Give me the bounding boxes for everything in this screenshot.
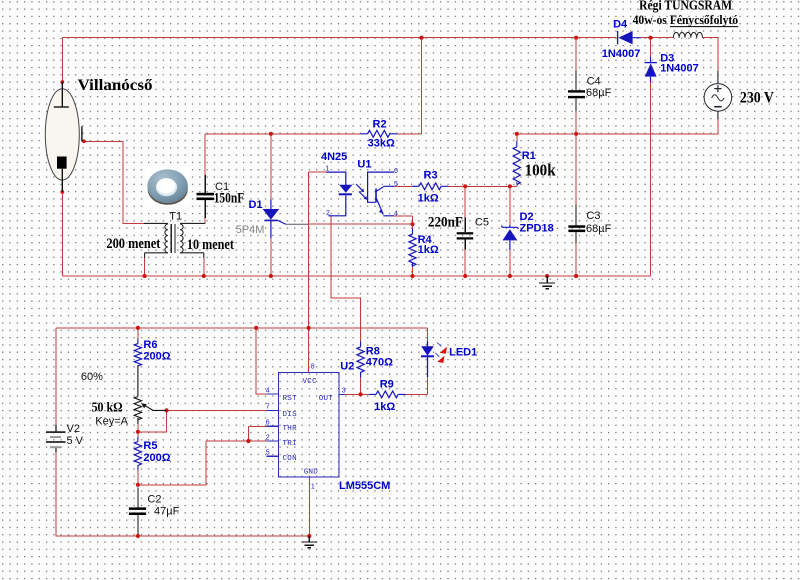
svg-text:1: 1 — [311, 483, 315, 490]
svg-text:CON: CON — [283, 455, 297, 463]
svg-text:4N25: 4N25 — [321, 151, 347, 163]
svg-text:R2: R2 — [373, 119, 387, 131]
svg-text:Villanócső: Villanócső — [78, 77, 153, 94]
svg-text:C2: C2 — [147, 493, 161, 505]
svg-text:RST: RST — [283, 395, 298, 403]
svg-text:470Ω: 470Ω — [366, 356, 393, 368]
svg-text:1kΩ: 1kΩ — [418, 244, 439, 256]
svg-text:7: 7 — [266, 404, 270, 411]
svg-text:R6: R6 — [143, 339, 157, 351]
svg-text:5: 5 — [394, 181, 398, 188]
svg-text:8: 8 — [311, 363, 315, 370]
svg-text:C3: C3 — [586, 210, 600, 222]
svg-text:33kΩ: 33kΩ — [368, 138, 395, 150]
svg-text:ZPD18: ZPD18 — [520, 223, 554, 235]
svg-text:THR: THR — [283, 425, 298, 433]
svg-text:C4: C4 — [587, 75, 601, 87]
svg-text:D2: D2 — [520, 211, 534, 223]
svg-text:D4: D4 — [613, 19, 628, 31]
svg-text:3: 3 — [342, 388, 346, 395]
svg-text:6: 6 — [266, 420, 270, 427]
svg-text:LED1: LED1 — [449, 347, 477, 359]
svg-text:GND: GND — [304, 469, 319, 477]
svg-text:50 kΩ: 50 kΩ — [92, 401, 123, 416]
svg-text:D1: D1 — [249, 199, 263, 211]
svg-text:1N4007: 1N4007 — [602, 48, 641, 60]
svg-text:4: 4 — [394, 210, 398, 217]
svg-text:5: 5 — [266, 450, 270, 457]
svg-text:68µF: 68µF — [586, 223, 612, 235]
svg-text:230 V: 230 V — [740, 89, 774, 106]
svg-text:1: 1 — [325, 166, 329, 173]
svg-text:4: 4 — [266, 387, 270, 394]
svg-text:VCC: VCC — [303, 378, 318, 386]
svg-text:100k: 100k — [525, 160, 556, 179]
svg-text:200Ω: 200Ω — [143, 452, 170, 464]
svg-text:2: 2 — [266, 434, 270, 441]
svg-text:220nF: 220nF — [428, 215, 463, 231]
svg-text:TRI: TRI — [283, 440, 297, 448]
svg-text:40w-os Fénycsőfolytó: 40w-os Fénycsőfolytó — [633, 12, 739, 27]
svg-text:60%: 60% — [81, 371, 103, 383]
svg-text:200 menet: 200 menet — [106, 236, 160, 252]
svg-text:68µF: 68µF — [586, 87, 612, 99]
svg-text:LM555CM: LM555CM — [339, 480, 390, 492]
svg-text:R9: R9 — [380, 378, 394, 390]
svg-text:200Ω: 200Ω — [143, 351, 170, 363]
svg-text:47µF: 47µF — [154, 506, 180, 518]
svg-text:10 menet: 10 menet — [187, 237, 234, 253]
svg-text:DIS: DIS — [283, 411, 298, 419]
svg-text:R5: R5 — [143, 440, 157, 452]
svg-text:1kΩ: 1kΩ — [418, 193, 439, 205]
svg-text:C5: C5 — [475, 217, 489, 229]
svg-text:V2: V2 — [67, 423, 80, 435]
svg-text:U1: U1 — [357, 158, 371, 170]
svg-text:Key=A: Key=A — [95, 416, 128, 428]
svg-text:150nF: 150nF — [214, 191, 245, 207]
svg-text:2: 2 — [326, 210, 330, 217]
svg-text:U2: U2 — [340, 361, 354, 373]
svg-text:OUT: OUT — [319, 395, 334, 403]
svg-text:5P4M: 5P4M — [236, 224, 265, 236]
svg-text:6: 6 — [394, 168, 398, 175]
svg-text:1N4007: 1N4007 — [660, 62, 699, 74]
svg-text:5 V: 5 V — [67, 435, 84, 447]
svg-text:1kΩ: 1kΩ — [374, 401, 395, 413]
svg-text:T1: T1 — [169, 211, 182, 223]
svg-text:R3: R3 — [424, 169, 438, 181]
